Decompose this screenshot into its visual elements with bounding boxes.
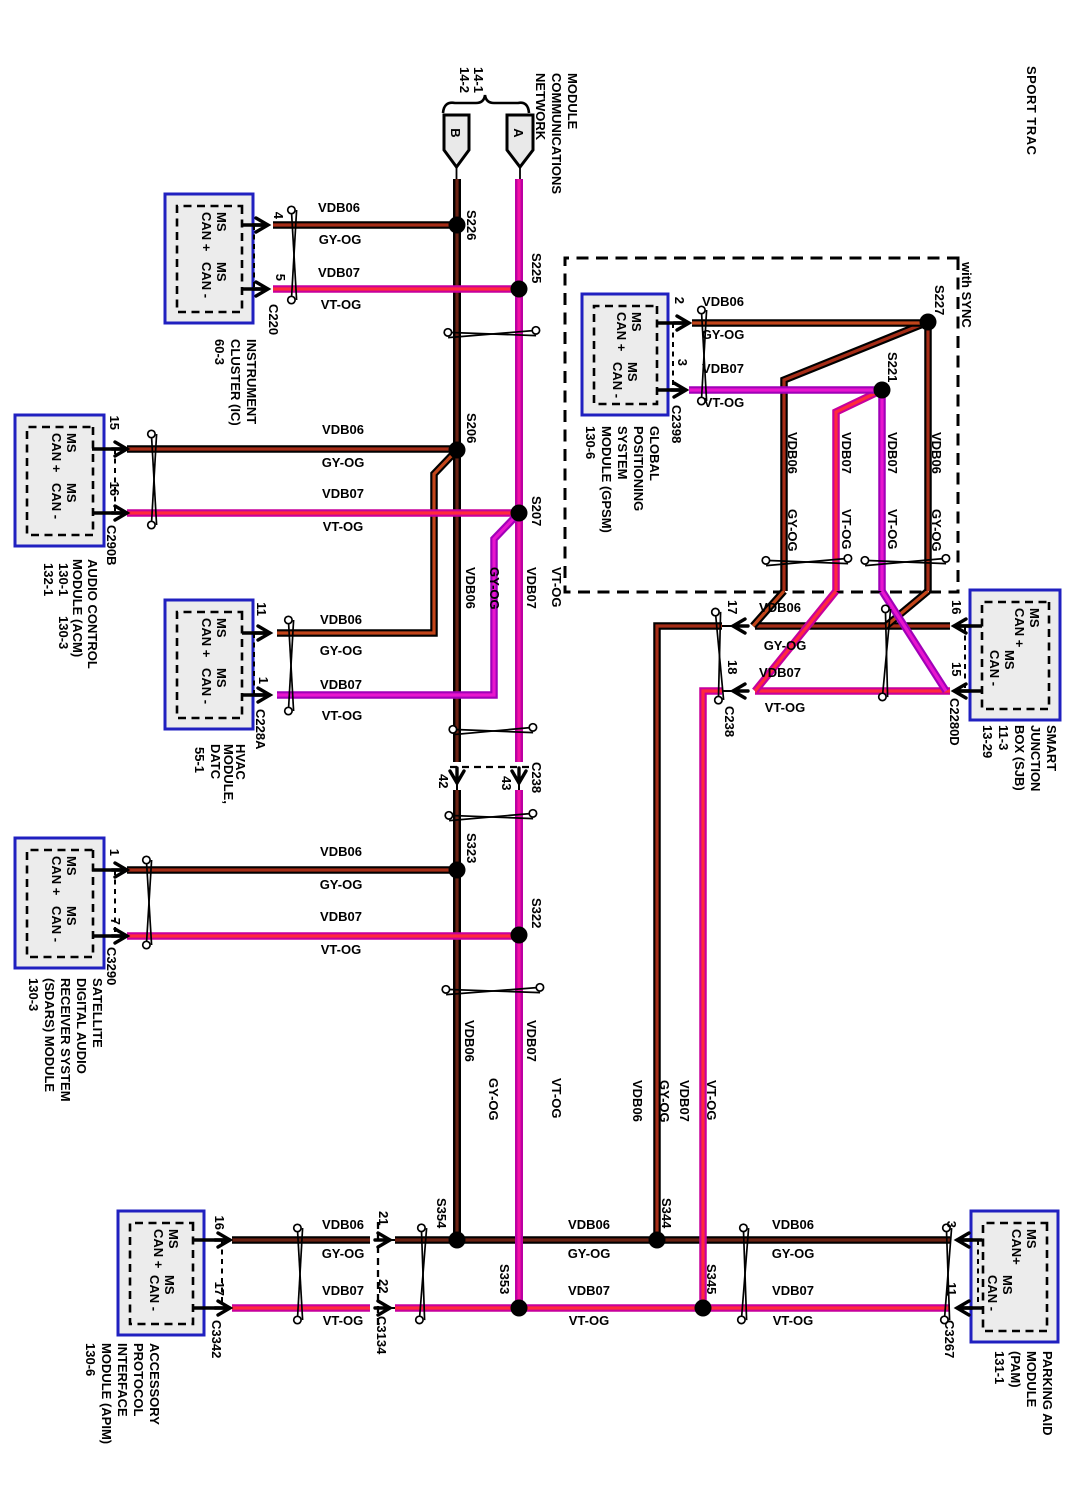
svg-text:130-1: 130-1 — [56, 563, 71, 596]
svg-text:VT-OG: VT-OG — [549, 1078, 564, 1118]
wire VDB06 GPSM w4 — [784, 322, 928, 591]
connector B (network) — [444, 115, 469, 167]
svg-text:NETWORK: NETWORK — [533, 73, 548, 141]
svg-text:CAN -: CAN - — [49, 906, 64, 942]
twisted pair — [698, 306, 707, 404]
svg-text:MS: MS — [1002, 650, 1017, 670]
svg-text:VT-OG: VT-OG — [569, 1313, 609, 1328]
svg-text:MS: MS — [64, 906, 79, 926]
wire VDB07 diagonal d2 — [882, 591, 946, 691]
wire VDB06 IC pin4 — [273, 221, 457, 229]
svg-text:MS: MS — [625, 362, 640, 382]
svg-text:VT-OG: VT-OG — [839, 509, 854, 549]
svg-text:16: 16 — [212, 1216, 227, 1230]
svg-text:43: 43 — [499, 776, 514, 790]
svg-text:VT-OG: VT-OG — [704, 1080, 719, 1120]
svg-text:MS: MS — [214, 668, 229, 688]
SDARS connector C3290: pins 1,7 leads/arrows — [92, 868, 124, 872]
svg-text:C3290: C3290 — [104, 947, 119, 985]
svg-text:CAN +: CAN + — [49, 856, 64, 896]
svg-text:MS: MS — [1000, 1275, 1015, 1295]
svg-text:GY-OG: GY-OG — [702, 327, 745, 342]
svg-text:42: 42 — [436, 774, 451, 788]
svg-text:VT-OG: VT-OG — [322, 708, 362, 723]
module box: SDARS Module — [15, 838, 104, 968]
svg-text:S207: S207 — [529, 496, 544, 526]
svg-text:60-3: 60-3 — [212, 339, 227, 365]
wire VDB07 HVAC pin1 — [277, 513, 519, 695]
svg-text:GY-OG: GY-OG — [487, 567, 502, 610]
svg-text:GLOBAL: GLOBAL — [647, 426, 662, 481]
svg-text:CAN +: CAN + — [1012, 608, 1027, 648]
wire VDB07 SJB pin15 vertical — [755, 687, 950, 695]
GPSM connector C2398: pins 2,3 leads/arrows — [656, 321, 686, 325]
twisted pair — [762, 555, 851, 566]
svg-text:CAN +: CAN + — [49, 433, 64, 473]
twisted pair — [288, 206, 297, 303]
wire VDB06 GPSM pin2 — [692, 319, 928, 327]
svg-text:VDB07: VDB07 — [320, 677, 362, 692]
wire VDB07 GPSM w2 — [878, 390, 886, 591]
svg-text:VDB07: VDB07 — [677, 1080, 692, 1122]
svg-text:VDB07: VDB07 — [568, 1283, 610, 1298]
svg-text:CLUSTER (IC): CLUSTER (IC) — [228, 339, 243, 426]
pin 11 arrow — [957, 1301, 972, 1315]
main bus VDB07 right segment — [515, 790, 523, 1308]
svg-text:POSITIONING: POSITIONING — [631, 426, 646, 511]
svg-text:3: 3 — [675, 359, 690, 366]
svg-text:SPORT TRAC: SPORT TRAC — [1024, 66, 1039, 156]
svg-text:C228A: C228A — [253, 709, 268, 750]
svg-text:S353: S353 — [497, 1264, 512, 1294]
svg-text:22: 22 — [376, 1279, 391, 1293]
svg-text:VDB06: VDB06 — [463, 567, 478, 609]
svg-text:PROTOCOL: PROTOCOL — [131, 1343, 146, 1416]
connector C238 pins 42/43 on main buses — [445, 766, 529, 768]
wire VDB07 right bus lower — [232, 1304, 370, 1312]
svg-text:11: 11 — [944, 1282, 959, 1296]
svg-text:17: 17 — [725, 600, 740, 614]
wire VDB06 diagonal d1 — [886, 591, 928, 626]
twisted pair — [879, 605, 891, 700]
svg-text:S227: S227 — [932, 285, 947, 315]
svg-text:VDB06: VDB06 — [322, 1217, 364, 1232]
svg-text:S354: S354 — [434, 1198, 449, 1229]
pin 43 arrow — [512, 768, 526, 783]
twisted pair — [143, 856, 152, 948]
svg-text:VDB06: VDB06 — [322, 422, 364, 437]
splice S322 — [511, 927, 528, 944]
svg-text:5: 5 — [273, 274, 288, 281]
twisted pair — [449, 724, 536, 735]
svg-text:13-29: 13-29 — [980, 725, 995, 758]
svg-text:CAN -: CAN - — [985, 1275, 1000, 1311]
svg-text:C3267: C3267 — [942, 1320, 957, 1358]
GPSM 'with SYNC' dashed outline — [565, 258, 958, 592]
svg-text:130-3: 130-3 — [56, 616, 71, 649]
svg-text:MODULE (APIM): MODULE (APIM) — [99, 1343, 114, 1444]
svg-text:VDB07: VDB07 — [524, 1020, 539, 1062]
svg-text:17: 17 — [212, 1282, 227, 1296]
svg-text:MS: MS — [214, 262, 229, 282]
pin 42 arrow — [450, 768, 464, 783]
wire VDB06 SDARS pin1 — [127, 866, 457, 874]
svg-text:C220: C220 — [266, 304, 281, 335]
pin 4 arrow — [253, 218, 268, 232]
svg-text:2: 2 — [672, 297, 687, 304]
svg-text:B: B — [448, 128, 463, 137]
brace 14-1 / 14-2 — [443, 95, 529, 113]
svg-text:VDB07: VDB07 — [772, 1283, 814, 1298]
twisted pair — [148, 430, 157, 528]
splice S323 — [449, 862, 466, 879]
svg-text:MS: MS — [214, 618, 229, 638]
svg-text:CAN -: CAN - — [199, 262, 214, 298]
wire VDB07 IC pin5 — [273, 285, 519, 293]
svg-text:14-2: 14-2 — [457, 67, 472, 93]
pin 17 arrow — [215, 1301, 230, 1315]
svg-text:VT-OG: VT-OG — [885, 509, 900, 549]
wire VDB07 GPSM w3 — [836, 390, 882, 591]
svg-text:CAN +: CAN + — [151, 1229, 166, 1269]
wire VDB06 GPSM w1 — [924, 322, 932, 591]
svg-text:VDB07: VDB07 — [320, 909, 362, 924]
svg-text:GY-OG: GY-OG — [322, 1246, 365, 1261]
svg-text:VT-OG: VT-OG — [765, 700, 805, 715]
svg-text:S226: S226 — [464, 210, 479, 240]
svg-text:S345: S345 — [704, 1264, 719, 1294]
pin 16 arrow — [215, 1233, 230, 1247]
svg-text:GY-OG: GY-OG — [568, 1246, 611, 1261]
svg-text:PARKING AID: PARKING AID — [1040, 1351, 1055, 1436]
svg-text:MS: MS — [64, 856, 79, 876]
twisted pair — [444, 327, 539, 338]
svg-text:VT-OG: VT-OG — [323, 519, 363, 534]
svg-text:CAN +: CAN + — [614, 312, 629, 352]
HVAC connector C228A: pins 11,1 leads/arrows — [242, 631, 267, 635]
pin 2 arrow — [674, 316, 689, 330]
twisted pair — [442, 984, 543, 995]
twisted pair — [861, 555, 949, 566]
svg-text:ACCESSORY: ACCESSORY — [147, 1343, 162, 1425]
svg-text:VDB07: VDB07 — [885, 432, 900, 474]
svg-text:11-3: 11-3 — [996, 725, 1011, 750]
svg-text:VT-OG: VT-OG — [773, 1313, 813, 1328]
svg-text:C3342: C3342 — [209, 1320, 224, 1358]
splice S225 — [511, 281, 528, 298]
svg-text:CAN -: CAN - — [610, 362, 625, 398]
twisted pair — [445, 810, 536, 821]
svg-text:C2280D: C2280D — [947, 698, 962, 746]
svg-text:VDB06: VDB06 — [568, 1217, 610, 1232]
svg-text:MS: MS — [64, 483, 79, 503]
wire VDB06 right bus upper — [395, 1236, 950, 1244]
svg-text:CAN -: CAN - — [49, 483, 64, 519]
svg-text:C2398: C2398 — [669, 405, 684, 443]
pin 1 arrow — [255, 688, 270, 702]
pin 16 arrow — [112, 506, 127, 520]
svg-text:11: 11 — [254, 602, 269, 616]
svg-text:MS: MS — [629, 312, 644, 332]
splice S344 — [649, 1232, 666, 1249]
svg-text:132-1: 132-1 — [41, 563, 56, 596]
svg-text:VDB07: VDB07 — [759, 665, 801, 680]
wire VDB07 SDARS pin7 — [127, 932, 519, 940]
svg-text:VDB07: VDB07 — [322, 486, 364, 501]
wire VDB07 SJB to S345 — [703, 691, 722, 1308]
wire VDB07 right bus upper — [395, 1304, 950, 1312]
splice S353 — [511, 1300, 528, 1317]
svg-text:VDB07: VDB07 — [318, 265, 360, 280]
svg-text:S322: S322 — [529, 898, 544, 928]
pin 22 arrow — [375, 1301, 390, 1315]
ACM connector C290B: pins 15,16 leads/arrows — [92, 447, 124, 451]
svg-text:VDB06: VDB06 — [785, 432, 800, 474]
svg-text:VDB06: VDB06 — [320, 612, 362, 627]
svg-text:RECEIVER SYSTEM: RECEIVER SYSTEM — [58, 978, 73, 1102]
svg-text:SATELLITE: SATELLITE — [90, 978, 105, 1048]
wire VDB06 SJB to S344 — [657, 626, 722, 1240]
module box: Parking Aid Module (PAM) — [971, 1211, 1058, 1342]
svg-text:AUDIO CONTROL: AUDIO CONTROL — [85, 559, 100, 669]
module box: HVAC Module DATC — [165, 600, 253, 729]
svg-text:GY-OG: GY-OG — [929, 509, 944, 552]
pin 15 arrow — [112, 442, 127, 456]
svg-text:CAN -: CAN - — [199, 668, 214, 704]
svg-text:CAN +: CAN + — [199, 618, 214, 658]
connector A (network) — [507, 115, 533, 167]
svg-text:21: 21 — [376, 1211, 391, 1225]
pin 5 arrow — [253, 282, 268, 296]
svg-text:MODULE (GPSM): MODULE (GPSM) — [599, 426, 614, 533]
svg-text:55-1: 55-1 — [192, 747, 207, 773]
twisted pair — [416, 1224, 427, 1323]
svg-text:VDB06: VDB06 — [462, 1020, 477, 1062]
svg-text:C238: C238 — [722, 706, 737, 737]
svg-text:GY-OG: GY-OG — [772, 1246, 815, 1261]
svg-text:MS: MS — [1027, 608, 1042, 628]
wire VDB06 diagonal d4 — [753, 591, 784, 626]
svg-text:SMART: SMART — [1044, 725, 1059, 771]
svg-text:1: 1 — [107, 849, 122, 856]
svg-text:MODULE,: MODULE, — [221, 744, 236, 804]
pin 3 arrow — [957, 1233, 972, 1247]
IC connector C220: pins 4,5 leads/arrows — [242, 223, 265, 227]
svg-text:S206: S206 — [464, 413, 479, 443]
module box: Audio Control Module (ACM) — [15, 415, 104, 546]
splice S345 — [695, 1300, 712, 1317]
svg-text:VDB06: VDB06 — [630, 1080, 645, 1122]
svg-text:1: 1 — [256, 677, 271, 684]
svg-text:C290B: C290B — [104, 525, 119, 565]
wire VDB06 right bus lower — [232, 1236, 370, 1244]
svg-text:GY-OG: GY-OG — [320, 877, 363, 892]
svg-text:130-3: 130-3 — [26, 978, 41, 1011]
svg-text:DATC: DATC — [208, 744, 223, 780]
svg-text:S225: S225 — [529, 253, 544, 283]
twisted pair — [285, 616, 294, 714]
svg-text:VT-OG: VT-OG — [321, 297, 361, 312]
twisted pair — [294, 1224, 303, 1323]
svg-text:VDB06: VDB06 — [702, 294, 744, 309]
APIM connector C3342: pins 16,17 leads/arrows — [192, 1238, 227, 1242]
svg-text:130-6: 130-6 — [583, 426, 598, 459]
svg-text:130-6: 130-6 — [83, 1343, 98, 1376]
svg-text:MS: MS — [166, 1229, 181, 1249]
svg-text:VDB07: VDB07 — [702, 361, 744, 376]
svg-text:(PAM): (PAM) — [1008, 1351, 1023, 1388]
main bus VDB06 right segment — [453, 790, 461, 1240]
wire VDB06 HVAC pin11 — [277, 450, 457, 633]
main bus VDB06 left segment — [453, 179, 461, 762]
svg-text:MS: MS — [1024, 1229, 1039, 1249]
svg-text:MS: MS — [64, 433, 79, 453]
wire VDB06 SJB pin16 vertical — [755, 622, 950, 630]
module box: GPSM — [582, 294, 668, 415]
svg-text:BOX (SJB): BOX (SJB) — [1012, 725, 1027, 791]
svg-text:INTERFACE: INTERFACE — [115, 1343, 130, 1417]
svg-text:VDB06: VDB06 — [929, 432, 944, 474]
SJB connector C2280D: pins 16,15 leads/arrows — [957, 624, 982, 628]
svg-text:CAN -: CAN - — [987, 650, 1002, 686]
svg-text:18: 18 — [725, 660, 740, 674]
splice S206 — [449, 442, 466, 459]
svg-text:GY-OG: GY-OG — [319, 232, 362, 247]
svg-text:MODULE: MODULE — [1024, 1351, 1039, 1408]
wire VDB07 diagonal d3 — [755, 591, 836, 691]
splice S227 — [920, 314, 937, 331]
svg-text:A: A — [511, 128, 526, 138]
svg-text:131-1: 131-1 — [992, 1351, 1007, 1384]
svg-text:(SDARS) MODULE: (SDARS) MODULE — [42, 978, 57, 1092]
svg-text:INSTRUMENT: INSTRUMENT — [244, 339, 259, 424]
wire VDB06 ACM pin15 — [127, 445, 457, 453]
svg-text:GY-OG: GY-OG — [322, 455, 365, 470]
splice S354 — [449, 1232, 466, 1249]
module box: Smart Junction Box (SJB) — [970, 590, 1060, 720]
pin 16 arrow — [954, 619, 969, 633]
svg-text:CAN+: CAN+ — [1009, 1229, 1024, 1265]
svg-text:15: 15 — [949, 662, 964, 676]
svg-text:VT-OG: VT-OG — [323, 1313, 363, 1328]
PAM connector C3267: pins 3,11 leads/arrows — [960, 1238, 982, 1242]
pin 3 arrow — [671, 383, 686, 397]
svg-text:COMMUNICATIONS: COMMUNICATIONS — [549, 73, 564, 194]
twisted pair — [941, 1224, 952, 1323]
svg-text:GY-OG: GY-OG — [657, 1080, 672, 1123]
connector C3134 pins 21/22 on right buses — [377, 1222, 379, 1330]
svg-text:VDB07: VDB07 — [839, 432, 854, 474]
svg-text:VDB06: VDB06 — [772, 1217, 814, 1232]
svg-text:C3134: C3134 — [374, 1316, 389, 1355]
svg-text:MS: MS — [214, 212, 229, 232]
splice S221 — [874, 382, 891, 399]
svg-text:GY-OG: GY-OG — [320, 643, 363, 658]
svg-text:S323: S323 — [464, 833, 479, 863]
pin 21 arrow — [375, 1233, 390, 1247]
svg-text:SYSTEM: SYSTEM — [615, 426, 630, 479]
svg-text:VDB06: VDB06 — [318, 200, 360, 215]
splice S226 — [449, 217, 466, 234]
pin 18 arrow — [733, 684, 748, 698]
wire VDB07 ACM pin16 — [127, 509, 519, 517]
svg-text:CAN +: CAN + — [199, 212, 214, 252]
pin 11 arrow — [255, 626, 270, 640]
svg-text:GY-OG: GY-OG — [764, 638, 807, 653]
svg-text:15: 15 — [107, 416, 122, 430]
module box: Instrument Cluster (IC) — [165, 194, 253, 323]
splice S207 — [511, 505, 528, 522]
svg-text:MODULE (ACM): MODULE (ACM) — [70, 559, 85, 657]
svg-text:3: 3 — [944, 1221, 959, 1228]
svg-text:with SYNC: with SYNC — [959, 261, 974, 328]
svg-text:CAN -: CAN - — [147, 1275, 162, 1311]
module box: APIM — [118, 1211, 204, 1335]
wire VDB07 GPSM pin3 — [689, 386, 882, 394]
svg-text:VDB07: VDB07 — [322, 1283, 364, 1298]
svg-text:JUNCTION: JUNCTION — [1028, 725, 1043, 791]
svg-text:DIGITAL AUDIO: DIGITAL AUDIO — [74, 978, 89, 1074]
svg-text:14-1: 14-1 — [471, 67, 486, 93]
pin 1 arrow — [112, 863, 127, 877]
pin 15 arrow — [954, 684, 969, 698]
svg-text:VDB06: VDB06 — [320, 844, 362, 859]
svg-text:MODULE: MODULE — [565, 73, 580, 130]
svg-text:16: 16 — [949, 600, 964, 614]
svg-text:4: 4 — [271, 212, 286, 220]
svg-text:MS: MS — [162, 1275, 177, 1295]
pin 17 arrow — [733, 619, 748, 633]
svg-text:GY-OG: GY-OG — [486, 1078, 501, 1121]
connector C238 loop symbol — [712, 608, 724, 703]
svg-text:S221: S221 — [885, 352, 900, 382]
svg-text:VT-OG: VT-OG — [549, 567, 564, 607]
svg-text:VT-OG: VT-OG — [321, 942, 361, 957]
svg-text:C238: C238 — [529, 762, 544, 793]
svg-text:VDB07: VDB07 — [524, 567, 539, 609]
svg-text:VT-OG: VT-OG — [704, 395, 744, 410]
svg-text:VDB06: VDB06 — [759, 600, 801, 615]
svg-text:S344: S344 — [659, 1198, 674, 1229]
pin 7 arrow — [112, 929, 127, 943]
twisted pair — [738, 1224, 749, 1323]
svg-text:GY-OG: GY-OG — [785, 509, 800, 552]
main bus VDB07 left segment — [515, 179, 523, 762]
